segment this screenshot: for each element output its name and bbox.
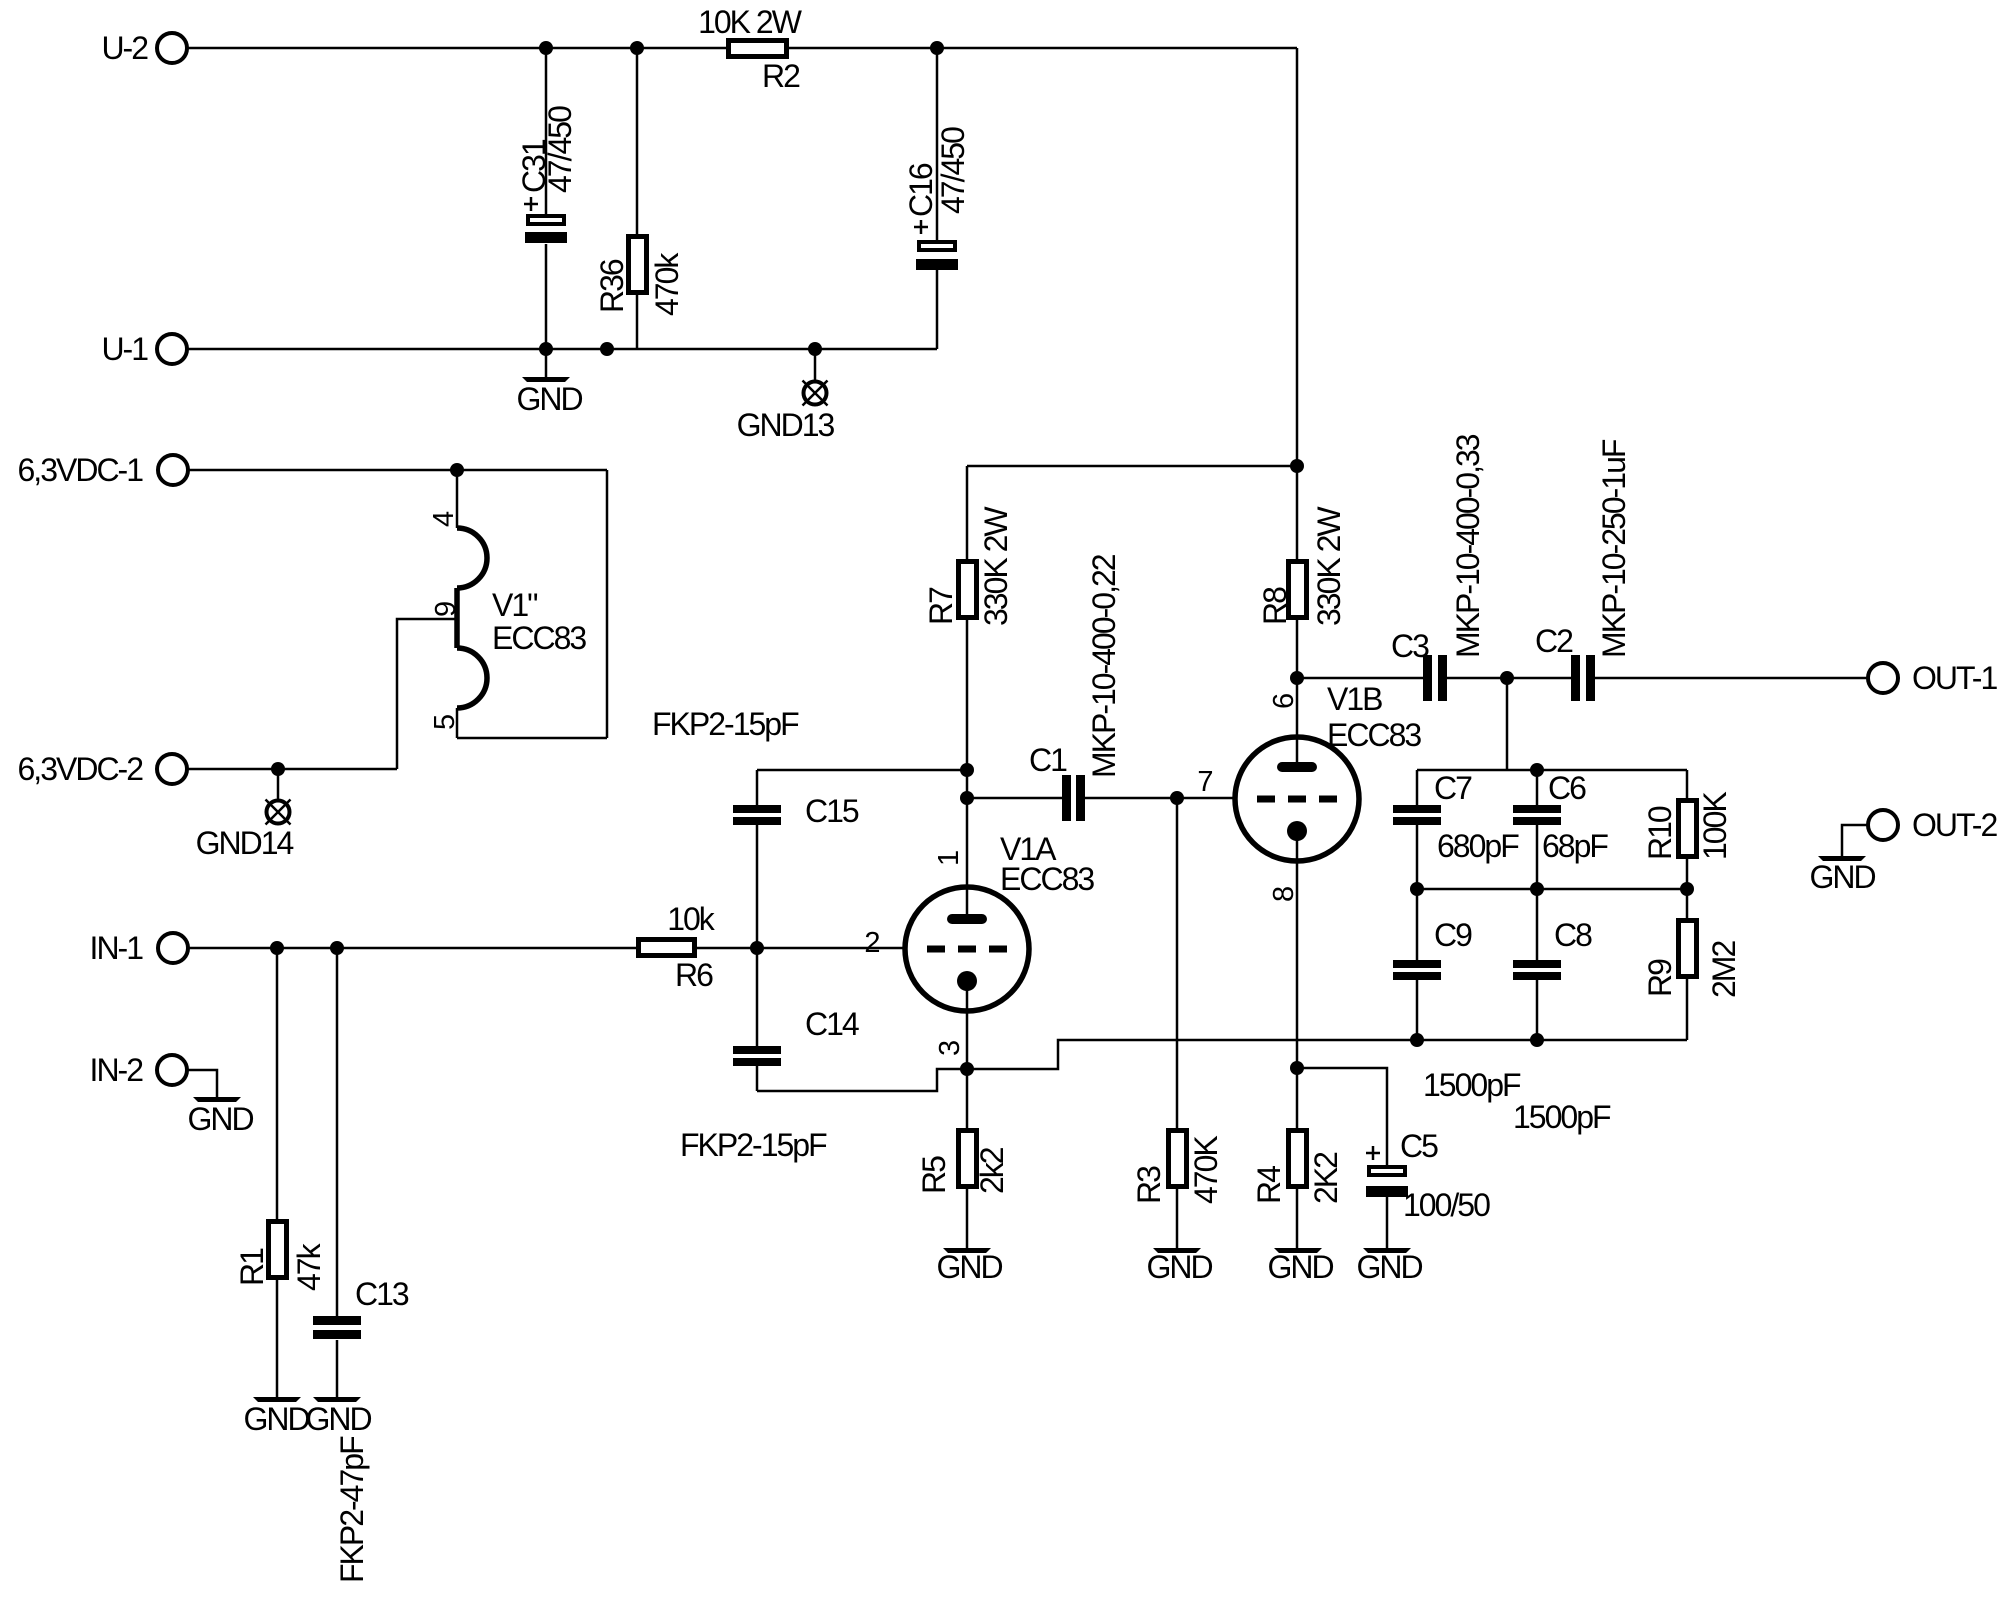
svg-text:10K 2W: 10K 2W	[698, 4, 803, 40]
resistor R1	[234, 948, 327, 1397]
terminal OUT-2	[1868, 807, 1997, 843]
svg-text:ECC83: ECC83	[492, 620, 586, 656]
svg-text:R2: R2	[762, 58, 800, 94]
wire heater box bottom	[457, 737, 607, 740]
svg-text:R7: R7	[923, 587, 959, 625]
junction mid rail R10	[1680, 882, 1694, 896]
svg-text:FKP2-15pF: FKP2-15pF	[680, 1127, 827, 1163]
svg-text:OUT-2: OUT-2	[1912, 807, 1997, 843]
svg-text:MKP-10-250-1uF: MKP-10-250-1uF	[1596, 439, 1632, 658]
svg-text:R5: R5	[916, 1156, 952, 1194]
junction V1A cathode node	[960, 1062, 974, 1076]
svg-text:6,3VDC-2: 6,3VDC-2	[18, 751, 144, 787]
junction V1A anode node	[960, 791, 974, 805]
svg-text:C8: C8	[1554, 917, 1592, 953]
capacitor C5	[1297, 1068, 1490, 1248]
svg-text:47k: 47k	[291, 1242, 327, 1291]
junction C3 C2 node	[1500, 671, 1514, 685]
svg-text:IN-1: IN-1	[90, 930, 144, 966]
junction bottom rail C8	[1530, 1033, 1544, 1047]
tube V1B ECC83	[1235, 678, 1421, 1068]
resistor R36	[594, 48, 685, 350]
resistor R8	[1257, 466, 1347, 678]
svg-text:C2: C2	[1535, 623, 1573, 659]
wire C14 bottom to cathode node	[757, 1069, 967, 1091]
svg-text:4: 4	[428, 511, 460, 527]
svg-text:GND: GND	[243, 1401, 309, 1437]
svg-text:2K2: 2K2	[1308, 1152, 1344, 1204]
ground flag GND13	[737, 349, 835, 443]
svg-text:1: 1	[933, 851, 965, 866]
svg-text:C13: C13	[355, 1276, 409, 1312]
capacitor C14	[680, 948, 859, 1163]
svg-text:GND: GND	[516, 381, 582, 417]
capacitor C13	[313, 948, 409, 1583]
svg-text:7: 7	[1197, 766, 1212, 798]
junction R7 C15 node	[960, 763, 974, 777]
capacitor C31	[516, 48, 578, 349]
junction heater pin 4	[450, 463, 464, 477]
svg-text:5: 5	[429, 715, 461, 730]
junction V1B grid node	[1170, 791, 1184, 805]
ground GND at OUT-2	[1809, 825, 1875, 895]
resistor R7	[923, 466, 1014, 798]
svg-text:1500pF: 1500pF	[1423, 1067, 1521, 1103]
svg-text:3: 3	[934, 1041, 966, 1056]
ground GND under R3	[1146, 1248, 1212, 1285]
svg-text:MKP-10-400-0,22: MKP-10-400-0,22	[1086, 554, 1122, 778]
svg-text:V1B: V1B	[1327, 681, 1382, 717]
junction C13 top	[330, 941, 344, 955]
junction top rail C6	[1530, 763, 1544, 777]
svg-text:FKP2-47pF: FKP2-47pF	[334, 1436, 370, 1583]
svg-text:47/450: 47/450	[542, 106, 578, 193]
svg-text:C16: C16	[903, 163, 939, 217]
svg-text:6,3VDC-1: 6,3VDC-1	[18, 452, 144, 488]
svg-text:47/450: 47/450	[935, 127, 971, 214]
svg-text:68pF: 68pF	[1542, 828, 1608, 864]
svg-text:330K 2W: 330K 2W	[978, 506, 1014, 626]
svg-text:FKP2-15pF: FKP2-15pF	[652, 706, 799, 742]
wire heater box right	[606, 470, 609, 738]
svg-text:470k: 470k	[649, 252, 685, 316]
svg-text:GND: GND	[1146, 1249, 1212, 1285]
svg-text:100K: 100K	[1697, 792, 1733, 860]
svg-text:C14: C14	[805, 1006, 859, 1042]
resistor R5	[916, 1069, 1010, 1248]
junction bottom rail C9	[1410, 1033, 1424, 1047]
svg-text:R1: R1	[234, 1248, 270, 1286]
capacitor C6	[1513, 770, 1608, 889]
ground GND under C31	[516, 349, 582, 417]
svg-text:C7: C7	[1434, 770, 1472, 806]
junction mid rail C7	[1410, 882, 1424, 896]
junction mid rail C6	[1530, 882, 1544, 896]
junction C31 top	[539, 41, 553, 55]
svg-text:GND: GND	[1809, 859, 1875, 895]
terminal 6,3VDC-1	[18, 452, 189, 488]
svg-text:GND: GND	[305, 1401, 371, 1437]
svg-text:ECC83: ECC83	[1327, 717, 1421, 753]
svg-text:R36: R36	[594, 259, 630, 313]
junction V1B cathode node	[1290, 1061, 1304, 1075]
wire C15 top to R7 node	[757, 769, 967, 772]
junction C15/C14 branch	[750, 941, 764, 955]
wire network mid rail	[1417, 888, 1687, 891]
junction V1B anode node	[1290, 671, 1304, 685]
svg-text:330K 2W: 330K 2W	[1311, 506, 1347, 626]
terminal 6,3VDC-2	[18, 751, 188, 787]
svg-text:9: 9	[430, 602, 462, 617]
ground GND under R4	[1267, 1248, 1333, 1285]
resistor R2	[698, 4, 803, 94]
junction GND stub	[539, 342, 553, 356]
svg-text:GND: GND	[936, 1249, 1002, 1285]
resistor R3	[1131, 798, 1224, 1248]
wire R6 to V1A grid	[697, 947, 905, 950]
svg-text:U-1: U-1	[101, 331, 148, 367]
svg-text:1500pF: 1500pF	[1513, 1099, 1611, 1135]
capacitor C9	[1393, 889, 1472, 1040]
svg-text:V1": V1"	[492, 587, 537, 623]
svg-text:GND14: GND14	[196, 825, 294, 861]
terminal U-2	[101, 30, 187, 66]
svg-text:C6: C6	[1548, 770, 1586, 806]
svg-text:100/50: 100/50	[1403, 1187, 1490, 1223]
wire B+ rail to R7	[967, 465, 1297, 468]
svg-text:2M2: 2M2	[1706, 941, 1742, 998]
wire 6,3VDC-1 to heater box	[188, 469, 607, 472]
svg-text:470K: 470K	[1188, 1136, 1224, 1204]
wire U-1	[187, 348, 937, 351]
junction R1 top	[270, 941, 284, 955]
resistor R9	[1642, 889, 1742, 1040]
svg-text:MKP-10-400-0,33: MKP-10-400-0,33	[1450, 434, 1486, 658]
wire C2 node down to network	[1506, 678, 1509, 770]
capacitor C3	[1297, 434, 1507, 701]
capacitor C15	[652, 706, 859, 948]
ground GND under C5	[1356, 1248, 1422, 1285]
svg-text:R9: R9	[1642, 959, 1678, 997]
resistor R4	[1251, 1068, 1344, 1248]
ground GND at IN-2	[187, 1070, 253, 1137]
svg-text:GND: GND	[1267, 1249, 1333, 1285]
svg-text:10k: 10k	[667, 901, 716, 937]
svg-text:6: 6	[1268, 694, 1300, 709]
capacitor C7	[1393, 770, 1519, 889]
svg-text:R3: R3	[1131, 1166, 1167, 1204]
capacitor C1	[967, 554, 1235, 821]
capacitor C16	[903, 48, 971, 349]
svg-text:U-2: U-2	[101, 30, 148, 66]
wire B+ down	[1296, 48, 1299, 466]
svg-text:2k2: 2k2	[974, 1147, 1010, 1194]
junction GND13 stub	[808, 342, 822, 356]
junction B+ R8	[1290, 459, 1304, 473]
svg-text:C5: C5	[1400, 1128, 1438, 1164]
ground GND under R1	[243, 1397, 309, 1437]
capacitor C8	[1513, 889, 1592, 1040]
wire network top rail	[1417, 769, 1687, 772]
svg-text:C9: C9	[1434, 917, 1472, 953]
wire IN-1 to R6	[188, 947, 636, 950]
wire 6,3VDC-2	[187, 768, 397, 771]
tube heater V1" ECC83	[428, 470, 586, 738]
capacitor C2	[1507, 439, 1868, 701]
ground GND under R5	[936, 1248, 1002, 1285]
wire heater pin 9	[397, 619, 457, 769]
tube V1A ECC83	[864, 798, 1094, 1069]
terminal IN-1	[90, 930, 188, 966]
svg-text:GND13: GND13	[737, 407, 835, 443]
junction C16 top	[930, 41, 944, 55]
svg-text:OUT-1: OUT-1	[1912, 660, 1997, 696]
svg-text:R10: R10	[1642, 806, 1678, 860]
svg-text:2: 2	[864, 927, 879, 959]
wire U-2 to R2	[187, 47, 726, 50]
ground GND under C13	[305, 1397, 371, 1437]
junction R36 top	[630, 41, 644, 55]
terminal OUT-1	[1868, 660, 1997, 696]
svg-text:R8: R8	[1257, 587, 1293, 625]
terminal IN-2	[90, 1052, 187, 1088]
terminal U-1	[101, 331, 187, 367]
svg-text:GND: GND	[187, 1101, 253, 1137]
svg-text:GND: GND	[1356, 1249, 1422, 1285]
svg-text:R6: R6	[675, 957, 713, 993]
wire R2 to B+ corner	[789, 47, 1297, 50]
svg-text:C3: C3	[1391, 628, 1429, 664]
junction GND14 stub	[271, 762, 285, 776]
svg-text:8: 8	[1268, 887, 1300, 902]
resistor R10	[1642, 770, 1733, 889]
ground flag GND14	[196, 769, 294, 861]
svg-text:IN-2: IN-2	[90, 1052, 144, 1088]
svg-text:680pF: 680pF	[1437, 828, 1519, 864]
wire V1A cathode to feedback rail	[967, 1040, 1687, 1069]
svg-text:R4: R4	[1251, 1166, 1287, 1204]
junction U-1 mid	[600, 342, 614, 356]
svg-text:C1: C1	[1029, 742, 1067, 778]
svg-text:C15: C15	[805, 793, 859, 829]
svg-text:ECC83: ECC83	[1000, 861, 1094, 897]
resistor R6	[639, 901, 716, 993]
